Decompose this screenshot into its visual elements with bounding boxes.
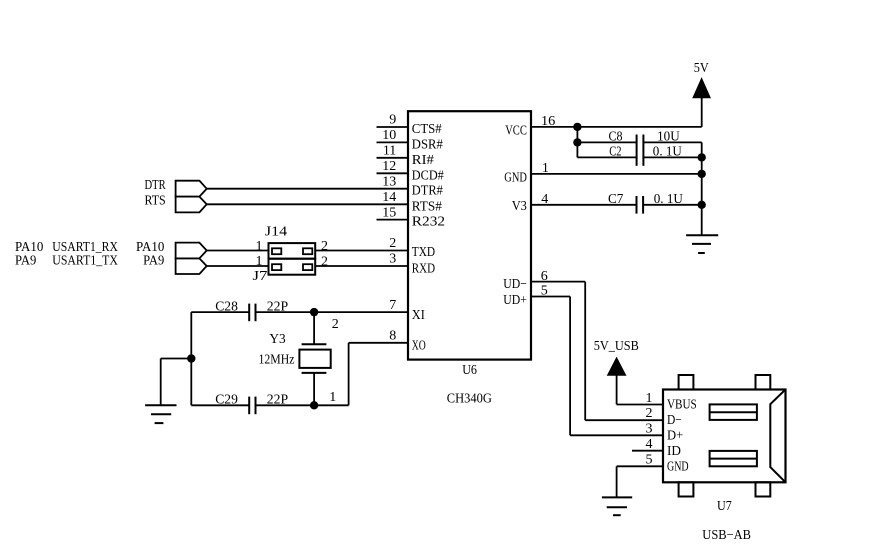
- IC U6 CH340G body: [408, 111, 531, 359]
- wire 5V stem: [701, 97, 703, 127]
- wire VBUS: [617, 404, 663, 406]
- connector J7 pad 1: [272, 264, 281, 270]
- wire C8 line right: [643, 141, 701, 143]
- svg-text:14: 14: [382, 190, 396, 205]
- wire J7 pin2 to RXD: [315, 265, 408, 267]
- connector J14 body: [269, 243, 316, 259]
- crystal Y3 body: [299, 350, 330, 368]
- svg-text:XO: XO: [412, 339, 426, 354]
- svg-text:5V: 5V: [694, 61, 709, 76]
- capacitor C8 C2 plates: [636, 135, 638, 166]
- svg-text:C28: C28: [215, 300, 238, 315]
- svg-text:VBUS: VBUS: [667, 398, 697, 413]
- svg-text:3: 3: [646, 422, 653, 437]
- svg-text:D−: D−: [667, 413, 682, 428]
- crystal Y3 top plate: [302, 343, 327, 345]
- connector J14 pad 1: [272, 248, 281, 254]
- svg-text:J14: J14: [265, 225, 287, 240]
- svg-text:1: 1: [646, 391, 653, 406]
- svg-text:C2: C2: [609, 144, 621, 159]
- wire GND pin 1: [531, 173, 702, 175]
- wire crystal top stub: [313, 312, 315, 344]
- svg-text:5: 5: [541, 284, 548, 299]
- connector U7 3D face: [770, 390, 785, 483]
- wire C8 line left: [577, 141, 636, 143]
- svg-text:6: 6: [541, 269, 548, 284]
- wire C2 line left: [577, 156, 636, 158]
- svg-text:RTS#: RTS#: [412, 199, 442, 214]
- wire USB GND drop: [616, 466, 618, 497]
- wire UD+ to D+: [570, 434, 663, 436]
- svg-text:C8: C8: [609, 129, 623, 144]
- wire C2 line right: [643, 156, 701, 158]
- svg-text:V3: V3: [512, 199, 527, 214]
- svg-text:1: 1: [542, 161, 549, 176]
- connector J7 body: [269, 259, 316, 275]
- wire UD+ pin 5: [531, 296, 570, 298]
- svg-text:VCC: VCC: [505, 123, 527, 138]
- wire PA9 to J7 pin1: [207, 265, 269, 267]
- crystal Y3 bottom plate: [302, 372, 327, 374]
- svg-text:GND: GND: [504, 170, 527, 185]
- svg-text:RI#: RI#: [412, 153, 434, 168]
- wire USB GND: [617, 465, 663, 467]
- svg-text:U7: U7: [717, 499, 732, 514]
- svg-text:2: 2: [321, 239, 328, 254]
- power 5V arrow: [694, 79, 710, 97]
- svg-text:12: 12: [382, 159, 396, 174]
- svg-text:1: 1: [256, 254, 263, 269]
- svg-text:4: 4: [541, 192, 548, 207]
- node junction dot C2 right: [698, 153, 706, 161]
- connector U7 body: [663, 390, 786, 483]
- ground top-right symbol: [686, 234, 718, 236]
- node RTS flag: [176, 197, 207, 213]
- svg-text:7: 7: [389, 298, 396, 313]
- node DTR flag: [176, 181, 207, 197]
- svg-text:13: 13: [382, 174, 396, 189]
- svg-text:16: 16: [541, 114, 555, 129]
- wire XO vertical: [348, 343, 350, 406]
- svg-text:0. 1U: 0. 1U: [654, 192, 683, 207]
- wire pin 12 stub: [377, 172, 409, 174]
- svg-text:4: 4: [646, 437, 653, 452]
- svg-text:22P: 22P: [267, 300, 289, 315]
- svg-text:11: 11: [383, 144, 396, 159]
- svg-text:GND: GND: [667, 459, 689, 474]
- svg-text:DTR: DTR: [145, 178, 167, 193]
- svg-text:5V_USB: 5V_USB: [594, 339, 639, 354]
- svg-text:ID: ID: [667, 444, 681, 459]
- svg-text:10U: 10U: [657, 129, 680, 144]
- svg-text:J7: J7: [253, 269, 268, 284]
- wire UD+ vertical: [569, 297, 571, 436]
- wire XI line right of C28: [256, 311, 409, 313]
- svg-text:1: 1: [256, 239, 263, 254]
- node junction dot GND rail: [698, 170, 706, 178]
- svg-text:USB−AB: USB−AB: [702, 528, 751, 543]
- wire cap branch vertical: [576, 127, 578, 157]
- svg-text:U6: U6: [462, 363, 477, 378]
- svg-text:0. 1U: 0. 1U: [653, 144, 682, 159]
- svg-text:10: 10: [382, 128, 396, 143]
- connector U7 tab bottom-left: [679, 482, 694, 496]
- svg-text:UD+: UD+: [503, 293, 527, 308]
- svg-text:5: 5: [646, 453, 653, 468]
- connector U7 lower contact bar: [710, 451, 757, 466]
- node PA10 flag: [176, 243, 207, 259]
- svg-text:RXD: RXD: [412, 261, 435, 276]
- wire PA10 to J14 pin1: [207, 250, 269, 252]
- svg-text:Y3: Y3: [269, 332, 285, 347]
- wire V3 pin 4 left of C7: [531, 204, 637, 206]
- wire left rail vertical: [190, 312, 192, 405]
- node junction dot left rail: [187, 354, 195, 362]
- wire crystal bottom stub: [313, 373, 315, 405]
- svg-text:2: 2: [646, 406, 653, 421]
- wire J14 pin2 to TXD: [315, 250, 408, 252]
- svg-text:2: 2: [321, 254, 328, 269]
- ground left symbol: [145, 404, 176, 406]
- connector U7 upper contact bar: [710, 404, 757, 420]
- svg-text:TXD: TXD: [412, 245, 435, 260]
- wire DTR to pin 13: [207, 188, 408, 190]
- wire pin 15 stub: [377, 219, 409, 221]
- svg-text:RTS: RTS: [145, 193, 166, 208]
- svg-text:PA9: PA9: [15, 253, 36, 268]
- node junction dot XI crystal: [310, 308, 318, 316]
- svg-text:C7: C7: [608, 192, 623, 207]
- node PA9 flag: [176, 258, 207, 274]
- wire C7 right: [643, 204, 702, 206]
- ground USB symbol: [602, 496, 632, 498]
- connector U7 tab top-right: [756, 375, 771, 390]
- svg-text:DTR#: DTR#: [412, 184, 443, 199]
- wire XI line left of C28: [191, 311, 249, 313]
- node junction dot crystal pin1: [310, 401, 318, 409]
- svg-text:XI: XI: [412, 308, 425, 323]
- svg-text:UD−: UD−: [503, 277, 527, 292]
- capacitor C7 plates: [636, 196, 638, 214]
- wire pin 11 stub: [377, 157, 409, 159]
- wire RTS to pin 14: [207, 203, 408, 205]
- connector J14 pad 2: [303, 248, 312, 254]
- svg-text:D+: D+: [667, 428, 683, 443]
- svg-text:1: 1: [329, 390, 336, 405]
- svg-text:15: 15: [382, 205, 396, 220]
- node junction dot VCC: [573, 123, 581, 131]
- wire UD- pin 6: [531, 281, 585, 283]
- capacitor C28 plates: [248, 304, 250, 322]
- svg-text:CTS#: CTS#: [412, 122, 442, 137]
- wire XO bottom line right of C29: [256, 404, 349, 406]
- svg-text:USART1_TX: USART1_TX: [52, 253, 118, 268]
- svg-text:2: 2: [389, 236, 396, 251]
- connector U7 tab bottom-right: [756, 482, 771, 496]
- wire ground drop: [160, 359, 162, 406]
- wire UD- to D-: [585, 419, 663, 421]
- svg-text:C29: C29: [215, 393, 238, 408]
- svg-text:2: 2: [332, 317, 339, 332]
- svg-text:22P: 22P: [267, 393, 289, 408]
- wire ground branch: [161, 358, 192, 360]
- svg-text:3: 3: [389, 252, 396, 267]
- wire pin 9 stub: [377, 126, 409, 128]
- wire right ground rail: [701, 142, 703, 235]
- power 5V_USB arrow: [608, 359, 625, 375]
- svg-text:DCD#: DCD#: [412, 168, 444, 183]
- svg-text:R232: R232: [412, 215, 445, 230]
- wire 5V_USB stem: [616, 375, 618, 405]
- svg-text:DSR#: DSR#: [412, 137, 443, 152]
- svg-text:PA9: PA9: [143, 253, 164, 268]
- wire ID stub: [632, 450, 663, 452]
- wire XO bottom line left of C29: [191, 404, 249, 406]
- capacitor C29 plates: [248, 397, 250, 415]
- svg-text:8: 8: [389, 329, 396, 344]
- connector U7 tab top-left: [679, 375, 694, 390]
- wire UD- vertical: [584, 282, 586, 421]
- node junction dot C8: [573, 138, 581, 146]
- wire XO to pin 8: [349, 342, 408, 344]
- svg-text:12MHz: 12MHz: [259, 353, 295, 368]
- wire VCC pin 16 rail: [531, 126, 702, 128]
- connector J7 pad 2: [303, 264, 312, 270]
- node junction dot C7 right: [698, 201, 706, 209]
- wire pin 10 stub: [377, 141, 409, 143]
- svg-text:9: 9: [389, 113, 396, 128]
- svg-text:CH340G: CH340G: [447, 392, 492, 407]
